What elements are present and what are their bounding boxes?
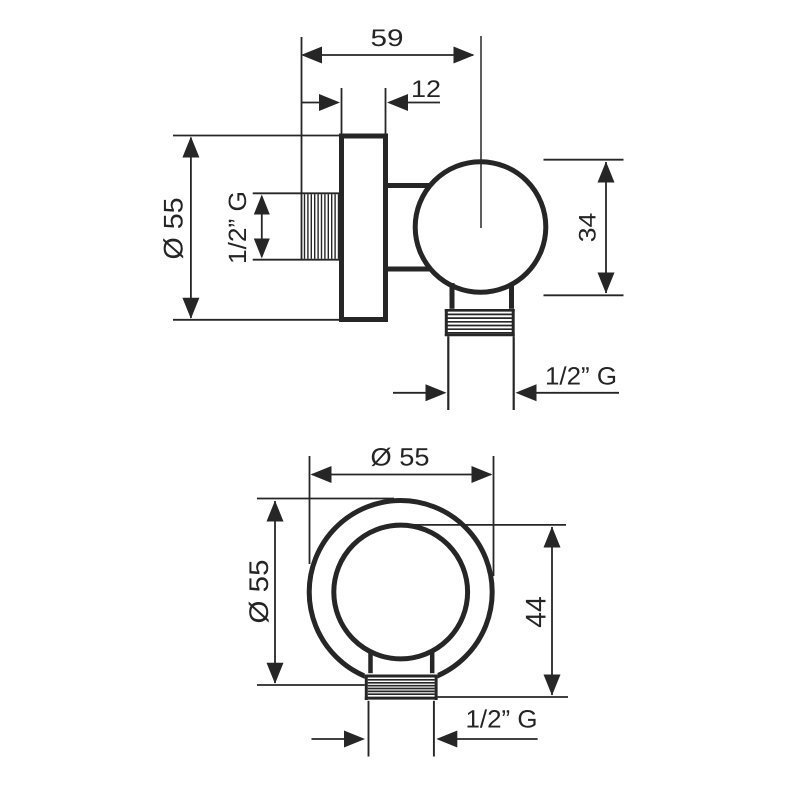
arrow 1/2G front left bbox=[344, 731, 365, 748]
dim label 44 bbox=[521, 596, 553, 628]
dim line 44 bbox=[551, 527, 553, 695]
arrow dia55 up bbox=[182, 137, 199, 158]
dim label dia55 front vertical bbox=[244, 560, 274, 624]
flange outer circle front view bbox=[309, 501, 492, 684]
dim 12 right leader bbox=[407, 102, 440, 104]
svg-text:1/2” G: 1/2” G bbox=[545, 363, 617, 391]
dim label 1/2G inlet bbox=[224, 191, 252, 264]
thread hatching inlet pipe bbox=[305, 194, 339, 259]
arrow 59 right bbox=[454, 47, 475, 64]
arrow front dia55 down bbox=[267, 663, 284, 684]
dim label 1/2G front bbox=[466, 706, 538, 734]
dim line 1/2G inlet bbox=[261, 197, 263, 257]
extension line dia55 bottom bbox=[173, 319, 340, 321]
arrow 34 up bbox=[598, 162, 615, 183]
extension line dia55 top bbox=[173, 135, 340, 137]
svg-text:Ø 55: Ø 55 bbox=[244, 560, 274, 624]
flange inner circle front view bbox=[334, 525, 468, 659]
extension line front right bbox=[493, 456, 495, 576]
arrow 1/2G inlet up bbox=[254, 195, 270, 215]
centerline through ball bbox=[480, 36, 482, 228]
dim 1/2G front right leader bbox=[456, 738, 537, 740]
extension line 34 bottom bbox=[544, 294, 624, 296]
extension line front left bbox=[309, 456, 311, 564]
threaded inlet pipe top edge + ext bbox=[253, 192, 342, 194]
svg-text:44: 44 bbox=[521, 596, 553, 628]
arrow dia55 front right bbox=[472, 466, 493, 483]
arrow 44 down bbox=[544, 675, 561, 696]
arrow 1/2G inlet down bbox=[254, 239, 270, 259]
outlet neck right front view bbox=[430, 651, 435, 677]
outlet neck right side view bbox=[509, 283, 514, 311]
outlet neck left front view bbox=[368, 651, 373, 677]
extension line 34 top bbox=[544, 159, 624, 161]
arrow 34 down bbox=[598, 273, 615, 294]
hose tube left side view bbox=[447, 336, 449, 410]
svg-text:34: 34 bbox=[575, 213, 602, 243]
hose tube left front view bbox=[368, 701, 370, 757]
dim label 12 bbox=[411, 76, 441, 103]
svg-text:12: 12 bbox=[411, 76, 441, 103]
threaded outlet block front view bbox=[365, 673, 438, 701]
extension line 44 top bbox=[410, 524, 566, 526]
extension line flange right bbox=[385, 88, 387, 136]
extension line front dia55 top bbox=[257, 498, 394, 500]
svg-text:59: 59 bbox=[371, 25, 404, 52]
arrow 12 left bbox=[319, 94, 340, 111]
hose tube right side view bbox=[513, 336, 515, 410]
extension line pipe end / 59 left bbox=[301, 37, 303, 260]
wall flange rectangle bbox=[342, 136, 386, 320]
dim label 1/2G outlet side view bbox=[545, 363, 617, 391]
dim label 34 bbox=[575, 213, 602, 243]
dim 1/2G outlet right leader bbox=[536, 392, 620, 394]
svg-text:1/2” G: 1/2” G bbox=[466, 706, 538, 734]
dim label dia55 side view bbox=[159, 198, 189, 260]
svg-text:1/2” G: 1/2” G bbox=[224, 191, 252, 264]
arrow front dia55 up bbox=[267, 501, 284, 522]
dim label 59 bbox=[371, 25, 404, 52]
dim 1/2G front left leader bbox=[312, 738, 346, 740]
threaded inlet pipe bottom edge + ext bbox=[253, 259, 342, 261]
ball body circle side view bbox=[415, 162, 546, 293]
extension line 44 bottom bbox=[437, 696, 568, 698]
arrow 1/2G outlet left bbox=[426, 384, 447, 401]
svg-text:Ø 55: Ø 55 bbox=[371, 444, 430, 472]
extension line front dia55 bottom bbox=[257, 684, 368, 686]
arrow dia55 front left bbox=[311, 466, 332, 483]
dim 1/2G outlet left leader bbox=[393, 392, 426, 394]
arrow 44 up bbox=[544, 527, 561, 548]
threaded outlet block side view bbox=[445, 309, 515, 336]
dim line front dia55 vertical bbox=[274, 501, 276, 683]
arrow 59 left bbox=[301, 47, 322, 64]
arrow 1/2G outlet right bbox=[516, 384, 537, 401]
connector top edge flange to ball bbox=[388, 183, 434, 188]
extension line flange left bbox=[341, 88, 343, 136]
dim line 34 bbox=[605, 162, 607, 293]
arrow 12 right bbox=[387, 94, 408, 111]
hose tube right front view bbox=[433, 701, 435, 757]
arrow dia55 down bbox=[182, 298, 199, 319]
outlet neck left side view bbox=[450, 283, 455, 311]
connector bottom edge flange to ball bbox=[388, 267, 434, 272]
dim line 59 bbox=[303, 54, 473, 56]
dim label dia55 front bbox=[371, 444, 430, 472]
arrow 1/2G front right bbox=[436, 731, 457, 748]
dim line dia55 vertical bbox=[190, 138, 192, 319]
dim line dia55 front horizontal bbox=[312, 474, 491, 476]
svg-text:Ø 55: Ø 55 bbox=[159, 198, 189, 260]
dim 12 left leader bbox=[301, 102, 320, 104]
